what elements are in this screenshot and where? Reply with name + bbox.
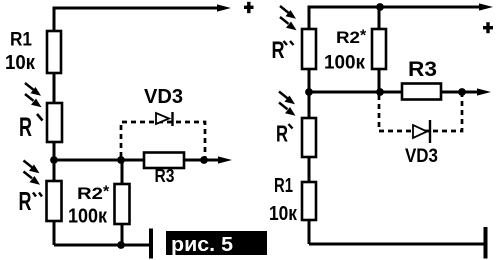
svg-text:VD3: VD3: [144, 85, 183, 108]
svg-text:10к: 10к: [269, 203, 298, 225]
svg-text:*: *: [360, 28, 367, 45]
svg-text:R: R: [19, 112, 32, 142]
svg-text:R3: R3: [408, 58, 437, 81]
svg-text:100к: 100к: [68, 206, 108, 228]
svg-text:*: *: [103, 184, 110, 201]
svg-text:рис. 5: рис. 5: [171, 234, 233, 256]
svg-text:10к: 10к: [5, 52, 36, 74]
svg-text:100к: 100к: [324, 52, 365, 74]
svg-text:R2: R2: [336, 28, 360, 47]
svg-text:R1: R1: [10, 30, 32, 51]
svg-text:R: R: [272, 37, 285, 64]
svg-text:R1: R1: [274, 175, 293, 197]
svg-text:VD3: VD3: [405, 146, 438, 167]
svg-text:R: R: [276, 121, 288, 147]
svg-text:R3: R3: [155, 166, 175, 186]
svg-text:R: R: [19, 186, 32, 216]
svg-text:R2: R2: [77, 184, 103, 203]
